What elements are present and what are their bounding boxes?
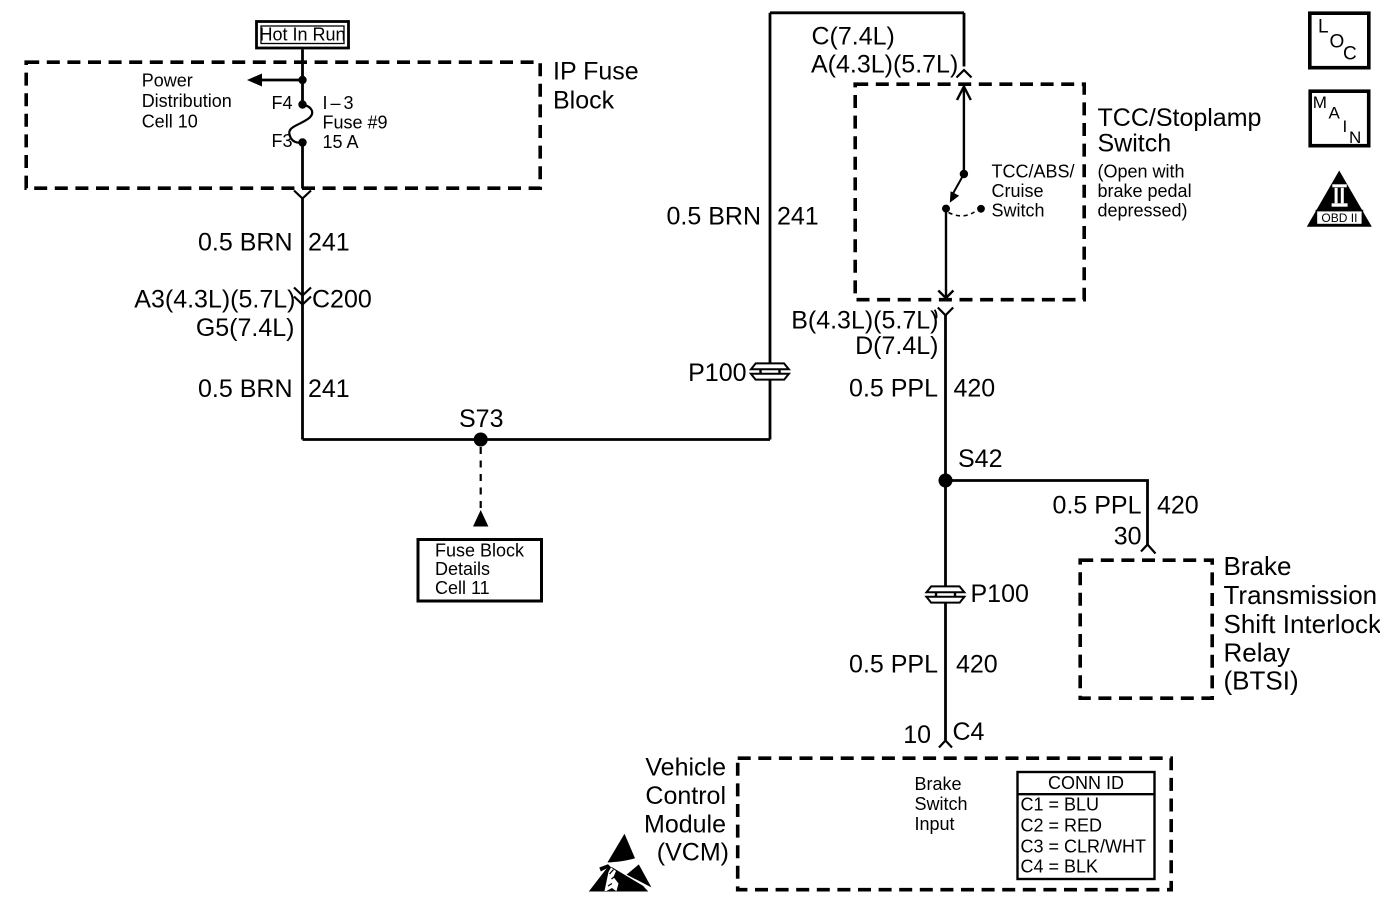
svg-text:0.5 BRN: 0.5 BRN <box>667 203 761 231</box>
OBD II triangle badge <box>1307 171 1372 227</box>
svg-text:0.5 BRN: 0.5 BRN <box>198 375 292 403</box>
CONN ID table <box>1018 772 1155 879</box>
svg-text:I–3: I–3 <box>323 93 357 113</box>
svg-text:D(7.4L): D(7.4L) <box>855 332 938 360</box>
wire: 0.5 PPL 420 down to VCM <box>944 315 947 740</box>
splice P100 on PPL wire <box>926 586 964 602</box>
TCC/Stoplamp Switch dashed box <box>855 84 1084 300</box>
svg-text:P100: P100 <box>688 359 746 387</box>
svg-text:C4: C4 <box>953 718 985 746</box>
connector chevron at pin B <box>938 308 953 316</box>
node S73 junction dot <box>474 433 488 447</box>
svg-text:depressed): depressed) <box>1098 201 1188 221</box>
connector C200 chevrons <box>294 288 311 305</box>
svg-text:0.5 BRN: 0.5 BRN <box>198 229 292 257</box>
svg-text:420: 420 <box>954 375 996 403</box>
svg-text:OBD II: OBD II <box>1321 211 1357 225</box>
IP Fuse Block dashed box <box>26 62 540 188</box>
svg-text:B(4.3L)(5.7L): B(4.3L)(5.7L) <box>791 306 938 334</box>
node: fuse terminal F4 <box>298 100 306 108</box>
svg-text:Fuse #9: Fuse #9 <box>323 113 388 133</box>
svg-text:Switch: Switch <box>992 201 1045 221</box>
svg-text:A3(4.3L)(5.7L): A3(4.3L)(5.7L) <box>134 286 295 314</box>
wire: horizontal rail to S73 and right branch <box>303 438 771 441</box>
svg-text:Relay: Relay <box>1224 638 1290 668</box>
svg-text:A(4.3L)(5.7L): A(4.3L)(5.7L) <box>811 51 958 79</box>
wire: fuse output to IP block edge <box>301 143 304 189</box>
ESD sensitivity symbol <box>589 834 652 892</box>
wire: right vertical riser 0.5 BRN 241 <box>769 13 772 440</box>
svg-text:P100: P100 <box>971 580 1029 608</box>
svg-text:C: C <box>1343 44 1357 65</box>
svg-text:Switch: Switch <box>915 794 968 814</box>
svg-text:241: 241 <box>308 229 350 257</box>
dashed reference leader from S73 <box>480 447 482 512</box>
svg-text:Brake: Brake <box>1224 551 1292 581</box>
svg-text:420: 420 <box>1157 492 1199 520</box>
switch contact dot <box>942 205 950 213</box>
BTSI relay dashed box <box>1080 560 1212 698</box>
connector caret at pin 30 <box>1141 545 1156 554</box>
svg-text:I: I <box>1343 117 1348 136</box>
svg-text:15 A: 15 A <box>323 132 359 152</box>
connector caret at pin A <box>957 70 972 78</box>
splice P100 on left riser <box>751 363 789 379</box>
svg-text:TCC/ABS/: TCC/ABS/ <box>992 162 1075 182</box>
LOC hotlink box <box>1310 13 1369 67</box>
svg-text:Brake: Brake <box>915 774 962 794</box>
wire: Hot In Run feed down to fuse F4 <box>301 50 304 105</box>
svg-text:0.5 PPL: 0.5 PPL <box>849 651 938 679</box>
VCM dashed box <box>738 758 1171 890</box>
svg-text:Fuse Block: Fuse Block <box>435 541 525 561</box>
svg-text:L: L <box>1318 17 1329 38</box>
Hot In Run box <box>257 22 349 49</box>
svg-text:(BTSI): (BTSI) <box>1224 666 1299 696</box>
svg-text:C1 = BLU: C1 = BLU <box>1021 795 1100 815</box>
svg-text:10: 10 <box>903 721 931 749</box>
connector chevron at IP fuse block exit <box>294 191 311 199</box>
wire: drop to TCC switch pin A <box>963 13 966 67</box>
svg-text:0.5 PPL: 0.5 PPL <box>1053 492 1142 520</box>
svg-text:M: M <box>1313 93 1327 112</box>
svg-text:S73: S73 <box>459 405 503 433</box>
fuse F9 element squiggle <box>289 105 312 143</box>
connector chevron at VCM pin 10 C4 <box>939 741 952 748</box>
node S42 junction dot <box>939 474 953 488</box>
switch blade with arrowhead <box>953 174 964 194</box>
svg-text:(Open with: (Open with <box>1098 162 1185 182</box>
reference arrowhead to Fuse Block Details <box>473 510 488 527</box>
svg-text:TCC/Stoplamp: TCC/Stoplamp <box>1098 104 1262 132</box>
wire: branch to BTSI relay pin 30 <box>946 481 1148 546</box>
svg-text:C4 = BLK: C4 = BLK <box>1021 857 1099 877</box>
svg-text:Shift Interlock: Shift Interlock <box>1224 609 1380 639</box>
svg-text:Distribution: Distribution <box>142 91 232 111</box>
svg-text:420: 420 <box>956 651 998 679</box>
switch pivot dot <box>960 170 968 178</box>
svg-text:N: N <box>1349 128 1361 147</box>
wire: 0.5 BRN 241 down to S73 rail <box>301 199 304 440</box>
svg-text:Module: Module <box>644 810 726 838</box>
svg-text:brake pedal: brake pedal <box>1098 181 1192 201</box>
wire: arrow to Power Distribution <box>256 79 303 82</box>
svg-text:Cell 10: Cell 10 <box>142 111 198 131</box>
Fuse Block Details box <box>418 540 542 602</box>
svg-text:Vehicle: Vehicle <box>645 754 726 782</box>
svg-text:Power: Power <box>142 71 193 91</box>
node: fuse terminal F3 <box>298 138 306 146</box>
MAIN hotlink box <box>1310 91 1369 147</box>
svg-text:C200: C200 <box>312 286 372 314</box>
svg-text:Hot In Run: Hot In Run <box>259 25 345 45</box>
svg-text:(VCM): (VCM) <box>657 839 729 867</box>
svg-text:0.5 PPL: 0.5 PPL <box>849 375 938 403</box>
svg-text:Switch: Switch <box>1098 130 1172 158</box>
svg-text:C3 = CLR/WHT: C3 = CLR/WHT <box>1021 837 1147 857</box>
svg-text:Details: Details <box>435 559 490 579</box>
svg-text:Input: Input <box>915 814 955 834</box>
svg-text:C2 = RED: C2 = RED <box>1021 816 1103 836</box>
svg-text:241: 241 <box>777 203 819 231</box>
node: junction dot at arrow tap <box>298 76 306 84</box>
svg-text:241: 241 <box>308 375 350 403</box>
svg-text:Cruise: Cruise <box>992 181 1044 201</box>
mechanical link dashed arc to cruise switch <box>949 212 975 216</box>
svg-text:Block: Block <box>553 87 615 115</box>
svg-text:Transmission: Transmission <box>1224 580 1378 610</box>
svg-text:30: 30 <box>1114 523 1142 551</box>
svg-text:CONN ID: CONN ID <box>1048 773 1124 793</box>
switch feed wire with up arrow <box>963 87 965 175</box>
svg-text:Control: Control <box>645 782 726 810</box>
svg-text:S42: S42 <box>958 445 1002 473</box>
switch output wire with down arrow <box>945 209 947 298</box>
wire: top horizontal jumper <box>770 11 964 14</box>
svg-text:Cell 11: Cell 11 <box>435 578 490 598</box>
svg-text:G5(7.4L): G5(7.4L) <box>196 314 295 342</box>
svg-text:F3: F3 <box>271 131 292 151</box>
svg-text:IP Fuse: IP Fuse <box>553 57 639 85</box>
svg-text:A: A <box>1329 104 1341 123</box>
svg-text:C(7.4L): C(7.4L) <box>812 23 895 51</box>
svg-text:F4: F4 <box>271 93 292 113</box>
